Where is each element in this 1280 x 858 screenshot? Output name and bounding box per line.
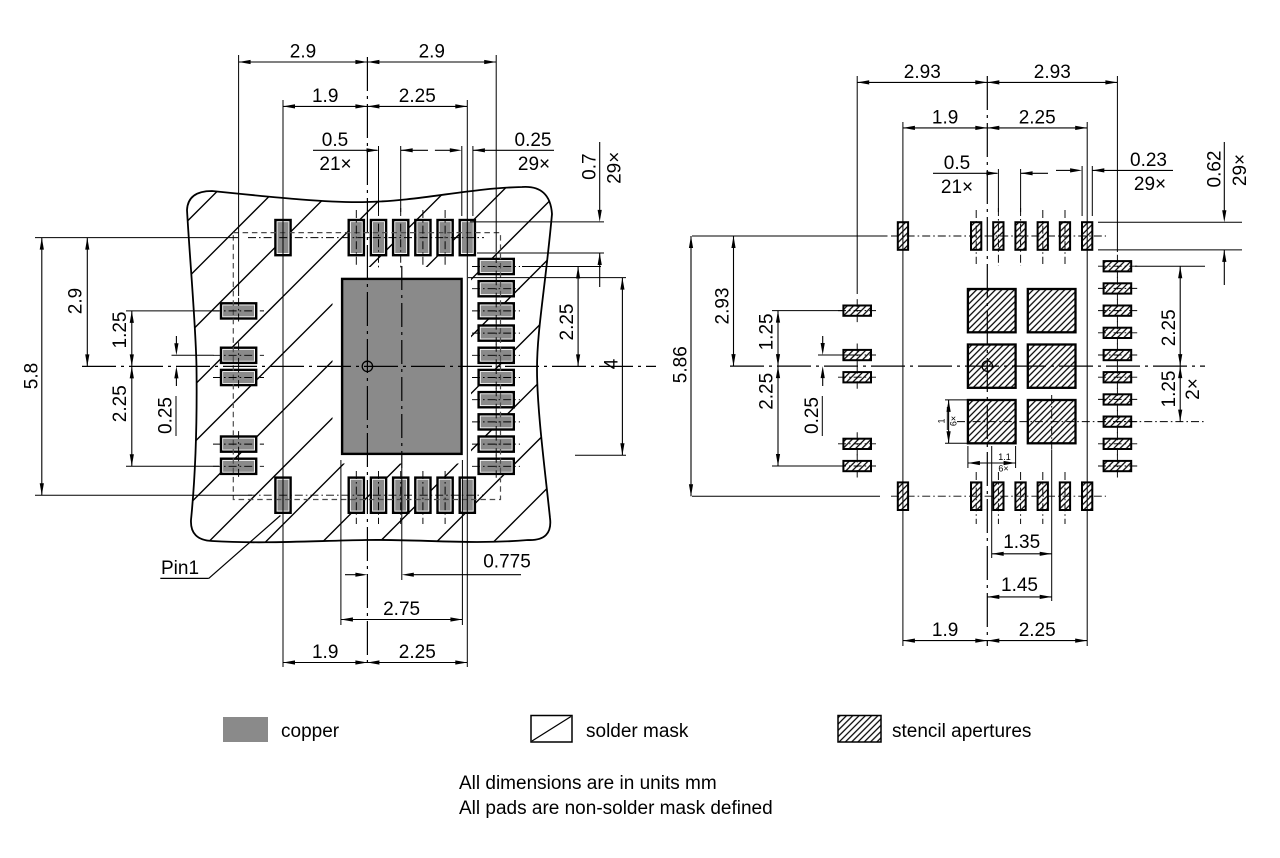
dash-dot vertical stub left aperture y=1.75 — [856, 432, 858, 455]
stencil aperture left column #2 (y=-0.25mm) — [843, 350, 871, 360]
svg-text:29×: 29× — [1134, 174, 1166, 195]
svg-text:All pads are non-solder mask d: All pads are non-solder mask defined — [459, 798, 773, 819]
svg-text:29×: 29× — [605, 152, 626, 184]
extension line y=+2.9mm row — [35, 494, 252, 496]
dash-dot vertical stub right pad y=0.25 — [495, 366, 497, 389]
dash-dot centerline left aperture y=-0.25 — [838, 354, 876, 356]
dash-dot vertical stub left aperture y=-1.25 — [856, 299, 858, 322]
dash-dot vertical stub right aperture y=1.25 — [1116, 410, 1118, 433]
svg-text:2.25: 2.25 — [399, 86, 436, 107]
dash-dot centerline right pad y=-0.25 — [472, 354, 520, 356]
dim 5.8 overall — [41, 238, 43, 496]
stencil aperture left column #3 (y=0.25mm) — [843, 372, 871, 382]
extension line left pad y=-1.25 — [126, 310, 219, 312]
stencil aperture top row #3 (x=0.75mm) — [1015, 222, 1025, 250]
dash-dot vertical stub left pad y=2.25 — [238, 453, 240, 479]
copper pad top row #4 (x=1.25mm) — [415, 220, 430, 255]
dash-dot centerline right pad y=1.25 — [472, 421, 520, 423]
svg-text:2.93: 2.93 — [904, 62, 941, 83]
copper pad right column #9 (y=1.75mm) — [479, 437, 514, 452]
dim 2.93 top-left (right fig) — [857, 81, 987, 83]
extension line x=-2.93mm (left aperture column) — [856, 76, 858, 294]
stencil aperture right column #6 (y=0.25mm) — [1104, 372, 1132, 382]
svg-text:2.25: 2.25 — [1019, 108, 1056, 129]
dash-dot centerline right aperture y=0.75 — [1098, 398, 1138, 400]
legend solder mask swatch — [531, 716, 572, 743]
vertical centerline left figure — [366, 57, 368, 667]
solder mask hatching (45 deg) — [0, 140, 896, 560]
dash-dot vertical stub right aperture y=1.75 — [1116, 432, 1118, 455]
svg-text:1.9: 1.9 — [932, 108, 958, 129]
extension line pad6 right edge — [472, 146, 474, 216]
dash-dot centerline right pad y=-0.75 — [472, 332, 520, 334]
extension line thermal pad top — [468, 277, 626, 279]
svg-text:2.25: 2.25 — [757, 373, 778, 410]
dim 2.25 top (right fig) — [987, 127, 1087, 129]
dash-dot centerline top aperture x=-0.25 — [975, 210, 977, 264]
stencil aperture bottom row #5 (x=1.75mm) — [1060, 482, 1070, 510]
svg-text:1.35: 1.35 — [1003, 532, 1040, 553]
extension line pad x=+0.75 (right fig) — [1020, 169, 1022, 212]
dash-dot centerline left aperture y=-1.25 — [838, 310, 876, 312]
dash-dot vertical stub right aperture y=2.25 — [1116, 455, 1118, 478]
dash-dot centerline right pad y=-1.75 — [472, 288, 520, 290]
dash-dot vertical stub right pad y=0.75 — [495, 388, 497, 411]
extension line thermal pad left edge — [340, 460, 342, 625]
dash-dot vertical stub right pad y=-0.75 — [495, 322, 497, 345]
extension line x=-1.9mm column (right fig) — [902, 122, 904, 646]
extension line x=+2.9mm (right pads column) — [495, 55, 497, 252]
extension line aperture right edge (0.23 dim) — [1091, 166, 1093, 216]
dash-dot centerline right aperture y=1.25 — [1098, 421, 1138, 423]
stencil aperture top-left corner — [898, 222, 908, 250]
dash-dot vertical stub left pad y=-0.25 — [238, 342, 240, 368]
dim 2.25 right side — [577, 267, 579, 367]
dim 1.9 top — [283, 105, 367, 107]
copper pad left column #4 (y=1.75mm) — [221, 437, 256, 452]
dash-dot centerline right aperture y=-0.75 — [1098, 332, 1138, 334]
dash-dot centerline thermal row3 — [957, 421, 1205, 423]
stencil aperture bottom row #2 (x=0.25mm) — [993, 482, 1003, 510]
svg-text:0.25: 0.25 — [515, 130, 552, 151]
extension line x=+2.25mm column (right fig) — [1086, 122, 1088, 646]
dash-dot centerline right pad y=-1.25 — [472, 310, 520, 312]
dash-dot vertical stub right aperture y=-0.75 — [1116, 321, 1118, 344]
stencil thermal aperture row1 col2 1.1x1.0 — [1028, 289, 1076, 332]
dim 0.5 21x (pad pitch) — [313, 149, 378, 151]
dash-dot vertical stub right aperture y=-1.75 — [1116, 277, 1118, 300]
dim 1.9 top (right fig) — [903, 127, 987, 129]
extension line thermal pad right edge — [461, 460, 463, 625]
extension line aperture row y=-2.25 (right fig) — [1135, 265, 1205, 267]
svg-text:2.75: 2.75 — [383, 599, 420, 620]
copper pad right column #6 (y=0.25mm) — [479, 370, 514, 385]
dim 2.25 right side (right fig) — [1179, 266, 1181, 366]
dash-dot centerline bottom aperture x=0.25 — [997, 472, 999, 524]
stencil aperture left column #1 (y=-1.25mm) — [843, 306, 871, 316]
svg-text:0.775: 0.775 — [483, 552, 531, 573]
stencil aperture bottom row #6 (x=2.25mm) — [1082, 482, 1092, 510]
dash-dot vertical stub right pad y=-2.25 — [495, 255, 497, 278]
extension line pad x=+0.25 (right fig) — [997, 169, 999, 212]
dim 5.86 overall (right fig) — [690, 236, 692, 496]
svg-text:4: 4 — [602, 358, 623, 369]
stencil aperture top row #1 (x=-0.25mm) — [971, 222, 981, 250]
extension line left aperture y=-0.25 (right fig) — [818, 354, 860, 356]
dim 1.35 (aperture cols pitch) — [992, 553, 1052, 555]
copper pad Pin1 bottom-left (x=-1.9mm) — [275, 478, 290, 513]
svg-text:1.9: 1.9 — [312, 86, 338, 107]
stencil aperture top row #5 (x=1.75mm) — [1060, 222, 1070, 250]
stencil aperture top row #6 (x=2.25mm) — [1082, 222, 1092, 250]
svg-text:1.9: 1.9 — [312, 642, 338, 663]
stencil aperture left column #5 (y=2.25mm) — [843, 461, 871, 471]
svg-text:2.93: 2.93 — [713, 288, 734, 325]
copper pad bottom row #6 (x=2.25mm) — [460, 478, 475, 513]
dash-dot centerline bottom pad row — [248, 494, 484, 496]
dim 2.25 left — [131, 366, 133, 466]
dash-dot centerline top pad x=1.75 — [444, 210, 446, 266]
dash-dot vertical stub right aperture y=-2.25 — [1116, 255, 1118, 278]
dash-dot vertical stub right aperture y=0.75 — [1116, 388, 1118, 411]
extension line left pad y=-0.25 — [172, 354, 214, 356]
dash-dot centerline top pad row — [248, 237, 484, 239]
svg-text:29×: 29× — [1230, 154, 1251, 186]
dash-dot centerline top aperture x=1.75 — [1064, 210, 1066, 264]
stencil aperture right column #4 (y=-0.75mm) — [1104, 328, 1132, 338]
dash-dot centerline right aperture y=-1.25 — [1098, 310, 1138, 312]
svg-text:5.8: 5.8 — [21, 363, 42, 389]
dim 2.25 bottom — [367, 662, 467, 664]
stencil thermal aperture row1 col1 1.1x1.0 — [968, 289, 1016, 332]
dash-dot centerline right aperture y=-1.75 — [1098, 287, 1138, 289]
dash-dot centerline top pad x=-0.25 — [355, 210, 357, 266]
dash-dot centerline top aperture x=1.25 — [1042, 210, 1044, 264]
dim 1.45 — [987, 596, 1051, 598]
svg-text:1.25: 1.25 — [1159, 371, 1180, 408]
dash-dot vertical stub left pad y=-1.25 — [238, 298, 240, 324]
copper pad bottom row #2 (x=0.25mm) — [371, 478, 386, 513]
svg-text:2.9: 2.9 — [290, 42, 316, 63]
svg-text:0.7: 0.7 — [580, 153, 601, 179]
stencil thermal aperture row2 col1 1.1x1.0 — [968, 345, 1016, 388]
dash-dot vertical stub left aperture y=2.25 — [856, 455, 858, 478]
svg-text:2.25: 2.25 — [110, 385, 131, 422]
dim 2.75 (thermal pad width) — [341, 619, 463, 621]
copper pad left column #2 (y=-0.25mm) — [221, 348, 256, 363]
stencil aperture bottom row #4 (x=1.25mm) — [1038, 482, 1048, 510]
copper pad bottom row #3 (x=0.75mm) — [393, 478, 408, 513]
copper pad right column #5 (y=-0.25mm) — [479, 348, 514, 363]
copper pad right column #1 (y=-2.25mm) — [479, 259, 514, 274]
dim 0.7 29x (pad length) — [599, 142, 601, 211]
dash-dot centerline bottom pad x=1.25 — [422, 471, 424, 524]
dash-dot centerline left aperture y=1.75 — [838, 443, 876, 445]
stencil aperture right column #10 (y=2.25mm) — [1104, 461, 1132, 471]
dash-dot centerline right pad y=0.25 — [472, 377, 520, 379]
svg-text:0.25: 0.25 — [156, 397, 177, 434]
dash-dot vertical stub right pad y=-1.25 — [495, 299, 497, 322]
svg-text:0.23: 0.23 — [1130, 150, 1167, 171]
dash-dot centerline bottom aperture x=1.25 — [1042, 472, 1044, 524]
dash-dot centerline right aperture y=0.25 — [1098, 376, 1138, 378]
dash-dot centerline top pad x=1.25 — [422, 210, 424, 266]
center pad solder mask opening — [333, 267, 472, 464]
dash-dot vertical stub left pad y=0.25 — [238, 365, 240, 391]
svg-text:0.5: 0.5 — [944, 153, 970, 174]
svg-text:6×: 6× — [998, 464, 1008, 474]
dash-dot centerline left pad y=0.25 — [213, 377, 264, 379]
extension line pad x=+0.25 (0.5 dim) — [378, 146, 380, 212]
dash-dot vertical stub left aperture y=0.25 — [856, 366, 858, 389]
dash-dot vertical stub right pad y=-1.75 — [495, 277, 497, 300]
copper pad left column #3 (y=0.25mm) — [221, 370, 256, 385]
dim 2.93 top-right (right fig) — [987, 81, 1117, 83]
extension line x=-2.9mm (left pads column) — [238, 55, 240, 296]
svg-text:1.25: 1.25 — [110, 312, 131, 349]
dash-dot centerline left pad y=2.25 — [213, 465, 264, 467]
dash-dot vertical stub right pad y=1.25 — [495, 410, 497, 433]
legend copper swatch — [223, 717, 268, 742]
svg-text:2.25: 2.25 — [1159, 309, 1180, 346]
extension line x=-1.9mm (pin1 column) — [282, 100, 284, 667]
dim 0.775 (thermal pad offset) — [345, 574, 356, 576]
svg-text:copper: copper — [281, 721, 340, 742]
origin crosshair left figure — [362, 361, 372, 371]
copper pad right column #7 (y=0.75mm) — [479, 392, 514, 407]
svg-text:2.9: 2.9 — [419, 42, 445, 63]
svg-text:1.9: 1.9 — [932, 620, 958, 641]
dash-dot centerline right aperture y=-0.25 — [1098, 354, 1138, 356]
svg-text:All dimensions are in units mm: All dimensions are in units mm — [459, 773, 717, 794]
dim 1.25 left (right fig) — [777, 311, 779, 367]
extension line thermal col1 — [991, 446, 993, 558]
dim 2.9 left — [86, 238, 88, 367]
dash-dot centerline bottom pad x=1.75 — [444, 471, 446, 524]
svg-text:5.86: 5.86 — [671, 346, 692, 383]
dim 0.25 left (offset) — [175, 336, 177, 344]
stencil aperture right column #9 (y=1.75mm) — [1104, 439, 1132, 449]
stencil aperture top row #4 (x=1.25mm) — [1038, 222, 1048, 250]
stencil aperture left column #4 (y=1.75mm) — [843, 439, 871, 449]
stencil thermal aperture row3 col2 1.1x1.0 — [1028, 400, 1076, 443]
dash-dot centerline thermal col2 — [1051, 395, 1053, 450]
svg-text:21×: 21× — [319, 154, 351, 175]
extension line left aperture y=-1.25 (right fig) — [772, 310, 843, 312]
copper pad top row #2 (x=0.25mm) — [371, 220, 386, 255]
svg-text:Pin1: Pin1 — [161, 558, 199, 579]
extension line aperture left edge (0.23 dim) — [1081, 166, 1083, 216]
dash-dot vertical stub right aperture y=0.25 — [1116, 366, 1118, 389]
dash-dot centerline right aperture y=1.75 — [1098, 443, 1138, 445]
svg-text:6×: 6× — [949, 416, 959, 426]
extension line x=+2.25mm column — [466, 100, 468, 667]
dash-dot centerline bottom pad x=-0.25 — [355, 471, 357, 524]
svg-text:2.9: 2.9 — [66, 288, 87, 314]
svg-text:29×: 29× — [518, 154, 550, 175]
dim 0.23 29x (aperture width) — [1056, 169, 1071, 171]
dash-dot centerline right pad y=1.75 — [472, 443, 520, 445]
dash-dot vertical stub right aperture y=-1.25 — [1116, 299, 1118, 322]
extension line x=+2.93mm (right aperture column) — [1116, 76, 1118, 252]
copper pad right column #10 (y=2.25mm) — [479, 459, 514, 474]
svg-text:1.25: 1.25 — [757, 313, 778, 350]
extension line pad x=+0.75 (0.5 dim) — [400, 146, 402, 212]
extension line pad6 left edge — [461, 146, 463, 216]
dim 1.25 left — [131, 311, 133, 367]
stencil thermal aperture row2 col2 1.1x1.0 — [1028, 345, 1076, 388]
svg-text:1.45: 1.45 — [1001, 575, 1038, 596]
dash-dot centerline bottom aperture x=0.75 — [1020, 472, 1022, 524]
svg-text:stencil apertures: stencil apertures — [892, 721, 1031, 742]
svg-text:2×: 2× — [1183, 378, 1204, 400]
dim 0.25 left (right fig) — [822, 336, 824, 344]
copper pad top row #5 (x=1.75mm) — [438, 220, 453, 255]
copper pad bottom row #4 (x=1.25mm) — [415, 478, 430, 513]
dim 2.9 top-right — [367, 61, 496, 63]
dash-dot vertical stub right pad y=-0.25 — [495, 344, 497, 367]
dim 1.25 2x right side — [1179, 366, 1181, 422]
dash-dot vertical stub right aperture y=-0.25 — [1116, 344, 1118, 367]
stencil aperture right column #8 (y=1.25mm) — [1104, 417, 1132, 427]
stencil aperture bottom row #3 (x=0.75mm) — [1015, 482, 1025, 510]
dim 2.9 top-left — [239, 61, 368, 63]
stencil aperture right column #7 (y=0.75mm) — [1104, 394, 1132, 404]
stencil aperture top row #2 (x=0.25mm) — [993, 222, 1003, 250]
horizontal centerline right figure — [730, 365, 1205, 367]
extension line left aperture y=+2.25 (right fig) — [772, 465, 843, 467]
svg-text:0.5: 0.5 — [322, 130, 348, 151]
svg-text:1: 1 — [937, 418, 947, 423]
svg-text:1.1: 1.1 — [998, 452, 1011, 462]
svg-text:2.25: 2.25 — [1019, 620, 1056, 641]
dash-dot centerline right aperture y=2.25 — [1098, 465, 1138, 467]
dim 1.1 6x (aperture width) — [967, 446, 969, 468]
svg-text:solder mask: solder mask — [586, 721, 689, 742]
origin crosshair right figure — [982, 361, 992, 371]
stencil aperture right column #2 (y=-1.75mm) — [1104, 283, 1132, 293]
copper pad top row #6 (x=2.25mm) — [460, 220, 475, 255]
copper pad bottom row #1 (x=-0.25mm) — [349, 478, 364, 513]
svg-text:0.25: 0.25 — [802, 397, 823, 434]
dim 2.93 left (right fig) — [733, 236, 735, 366]
dash-dot centerline bottom aperture x=-0.25 — [975, 472, 977, 524]
copper pad top-left corner (x=-1.9mm) — [275, 220, 290, 255]
vertical centerline right figure — [986, 76, 988, 646]
svg-text:21×: 21× — [941, 177, 973, 198]
dim 4 (thermal pad height) — [621, 278, 623, 456]
solder mask region outline (wavy board area) — [187, 187, 552, 542]
dim 0.5 21x (right fig) — [933, 172, 997, 174]
copper pad left column #5 (y=2.25mm) — [221, 459, 256, 474]
extension line right pad row y=-2.25 — [522, 266, 601, 268]
dim 2.25 top — [367, 105, 467, 107]
extension line left pad y=+2.25 — [126, 465, 219, 467]
dash-dot centerline right pad y=0.75 — [472, 399, 520, 401]
copper pad right column #3 (y=-1.25mm) — [479, 303, 514, 318]
copper pad left column #1 (y=-1.25mm) — [221, 303, 256, 318]
dash-dot centerline left pad y=1.75 — [213, 443, 264, 445]
center thermal pad copper 2.75x4 — [342, 279, 462, 454]
dash-dot vertical stub left aperture y=-0.25 — [856, 344, 858, 367]
dash-dot centerline left aperture y=2.25 — [838, 465, 876, 467]
extension line y=-2.9mm row — [35, 237, 238, 239]
dash-dot centerline left aperture y=0.25 — [838, 376, 876, 378]
stencil aperture bottom-left corner (Pin1) — [898, 482, 908, 510]
dim 2.25 left (right fig) — [777, 366, 779, 466]
dim 2.25 bottom (right fig) — [987, 640, 1087, 642]
dash-dot vertical stub right pad y=1.75 — [495, 433, 497, 456]
dash-dot centerline left pad y=-1.25 — [213, 310, 264, 312]
extension line y=-2.93mm row (right fig) — [692, 235, 888, 237]
dim 0.25 29x (pad width) — [435, 149, 451, 151]
dash-dot centerline bottom pad x=0.75 — [400, 471, 402, 524]
dim 1.9 bottom (right fig) — [903, 640, 987, 642]
dim 1 6x (aperture height) — [945, 399, 967, 401]
extension line thermal pad bottom — [575, 454, 626, 456]
dash-dot vertical stub left pad y=1.75 — [238, 431, 240, 457]
dash-dot vertical centerline of thermal pad x=+0.775 — [401, 266, 403, 468]
dim 0.62 29x (aperture length) — [1223, 142, 1225, 211]
stencil aperture right column #5 (y=-0.25mm) — [1104, 350, 1132, 360]
svg-text:0.62: 0.62 — [1204, 151, 1225, 188]
dash-dot centerline right pad y=-2.25 — [472, 266, 520, 268]
horizontal centerline left figure — [82, 365, 656, 367]
dim 1.9 bottom — [283, 662, 367, 664]
package body outline (dashed 6x6mm) — [233, 233, 500, 500]
extension line y=+2.93mm row (right fig) — [692, 495, 880, 497]
dash-dot centerline left pad y=-0.25 — [213, 354, 264, 356]
stencil thermal aperture row3 col1 1.1x1.0 — [968, 400, 1016, 443]
copper pad right column #4 (y=-0.75mm) — [479, 326, 514, 341]
copper pad top row #3 (x=0.75mm) — [393, 220, 408, 255]
dash-dot centerline right pad y=2.25 — [472, 465, 520, 467]
copper pad right column #8 (y=1.25mm) — [479, 414, 514, 429]
svg-text:2.25: 2.25 — [557, 304, 578, 341]
stencil aperture right column #3 (y=-1.25mm) — [1104, 306, 1132, 316]
copper pad top row #1 (x=-0.25mm) — [349, 220, 364, 255]
svg-text:2.93: 2.93 — [1034, 62, 1071, 83]
dash-dot vertical stub right pad y=2.25 — [495, 455, 497, 478]
dash-dot centerline right aperture y=-2.25 — [1098, 265, 1138, 267]
stencil aperture right column #1 (y=-2.25mm) — [1104, 261, 1132, 271]
svg-text:2.25: 2.25 — [399, 642, 436, 663]
copper pad right column #2 (y=-1.75mm) — [479, 281, 514, 296]
stencil aperture bottom row #1 (x=-0.25mm) — [971, 482, 981, 510]
copper pad bottom row #5 (x=1.75mm) — [438, 478, 453, 513]
dash-dot centerline bottom aperture x=1.75 — [1064, 472, 1066, 524]
dash-dot centerline bottom pad x=0.25 — [378, 471, 380, 524]
legend stencil swatch — [838, 716, 881, 743]
